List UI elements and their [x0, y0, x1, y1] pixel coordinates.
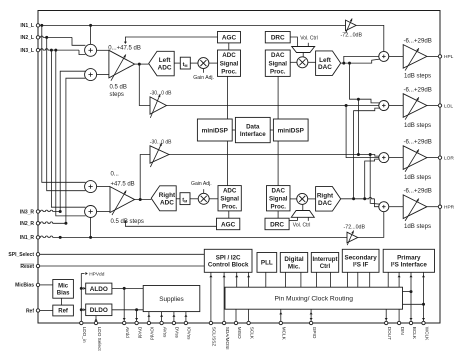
- amplifier LOR driver -6..+29dB: [403, 146, 427, 172]
- svg-text:LDO Select: LDO Select: [97, 327, 102, 352]
- arrowhead AGC feedback up: [124, 220, 127, 222]
- wire IN3_L into mixer: [79, 50, 85, 55]
- svg-text:ADC: ADC: [158, 65, 172, 72]
- svg-text:1dB steps: 1dB steps: [404, 73, 431, 80]
- volume control trapezoid bottom: [291, 204, 314, 221]
- arrowhead WCLK up: [422, 275, 425, 277]
- svg-text:0.5 dB: 0.5 dB: [110, 85, 127, 91]
- svg-text:DAC: DAC: [318, 200, 332, 207]
- terminal MicBias: [36, 283, 39, 286]
- arrowhead into DLDO: [83, 308, 85, 311]
- svg-text:DAC: DAC: [271, 52, 285, 59]
- wire Ref row: [40, 310, 53, 312]
- svg-text:Secondary: Secondary: [345, 254, 378, 261]
- wire right PGA tap up: [140, 155, 150, 200]
- junction left PGA output: [138, 63, 141, 66]
- wire mult to ADC proc right: [209, 198, 218, 200]
- wire LDO_in vertical: [80, 274, 82, 322]
- wire Secondary stub 3: [369, 272, 371, 287]
- wire SCLK stub: [248, 309, 250, 321]
- svg-text:LDO_in: LDO_in: [82, 327, 87, 343]
- wire miniDSPL to ADCproc bottom: [227, 141, 229, 186]
- svg-text:ALDO: ALDO: [90, 286, 108, 293]
- arrowhead AGC feedback down: [124, 42, 127, 44]
- wire mixer D to right PGA: [97, 211, 110, 213]
- block Data Interface: [235, 117, 270, 142]
- wire AVss stub: [161, 312, 163, 321]
- svg-text:1dB steps: 1dB steps: [404, 174, 431, 181]
- svg-text:DAC: DAC: [318, 64, 332, 71]
- svg-text:miniDSP: miniDSP: [202, 127, 229, 134]
- block Mic Bias: [53, 280, 74, 299]
- svg-text:-30...0 dB: -30...0 dB: [150, 140, 172, 146]
- svg-text:SCL/SSZ: SCL/SSZ: [212, 327, 217, 347]
- wire bus IN1_L vertical: [42, 25, 86, 182]
- arrowhead BCLK up: [410, 275, 413, 277]
- terminal SCL_SSZ: [209, 321, 212, 324]
- svg-text:Signal: Signal: [268, 60, 287, 67]
- svg-text:IN1_R: IN1_R: [20, 235, 35, 241]
- svg-text:Primary: Primary: [397, 254, 421, 261]
- wire DAC proc to mult bottom: [290, 198, 297, 200]
- wire HPVdd stub: [81, 273, 84, 275]
- wire bus IN3_L vertical 2: [56, 50, 86, 216]
- amplifier HPL driver -6..+29dB: [403, 45, 427, 71]
- svg-text:miniDSP: miniDSP: [278, 127, 305, 134]
- arrowhead DVdd down: [135, 318, 138, 320]
- terminal DIN: [397, 321, 400, 324]
- block PLL: [257, 253, 277, 273]
- svg-text:DVss: DVss: [175, 327, 180, 339]
- wire mixer A to left PGA: [97, 49, 109, 51]
- multiplier left DAC vol: [297, 57, 308, 68]
- wire MISO stub: [235, 309, 237, 321]
- block AGC bottom: [217, 218, 240, 230]
- block ADC Signal Proc top: [218, 50, 241, 76]
- svg-text:Interrupt: Interrupt: [312, 256, 337, 263]
- svg-text:1dB steps: 1dB steps: [404, 223, 431, 230]
- multiplier left gain adj: [198, 58, 209, 69]
- wire IN2_L into mixer: [72, 37, 85, 45]
- block DRC top: [265, 32, 290, 43]
- wire LDO to ALDO: [81, 287, 83, 289]
- svg-text:Supplies: Supplies: [159, 296, 184, 303]
- terminal SCLK: [247, 321, 250, 324]
- svg-text:Reset: Reset: [20, 264, 34, 270]
- svg-text:Proc.: Proc.: [270, 69, 286, 76]
- wire Right DAC output row: [341, 197, 375, 198]
- arrowhead BCLK down: [410, 318, 413, 320]
- wire LOR amp to pad: [427, 157, 438, 159]
- arrowhead into ALDO: [83, 287, 85, 290]
- svg-text:AVss: AVss: [162, 327, 167, 338]
- svg-text:Proc.: Proc.: [271, 203, 287, 210]
- summing mixer left PGA A: [85, 44, 97, 56]
- svg-text:-30...0 dB: -30...0 dB: [150, 91, 172, 97]
- svg-text:Ref: Ref: [58, 309, 69, 315]
- junction IN3_R bus: [59, 210, 62, 213]
- wire IN2_L row: [40, 36, 72, 37]
- junction IN3_L bus 2: [54, 49, 57, 52]
- svg-text:-6...+29dB: -6...+29dB: [404, 188, 432, 195]
- arrowhead SPI stub 3: [235, 275, 238, 277]
- wire Left DAC output row: [341, 59, 381, 63]
- svg-text:Signal: Signal: [220, 60, 239, 67]
- wire mixer B to left PGA: [97, 74, 109, 76]
- junction RDAC V3b: [352, 197, 355, 200]
- svg-text:IN3_L: IN3_L: [20, 48, 34, 54]
- wire Secondary stub 2: [357, 272, 359, 287]
- block ADC Signal Proc bottom: [218, 186, 241, 211]
- wire miniDSPL to DataIF: [232, 129, 235, 131]
- svg-text:I²S Interface: I²S Interface: [391, 262, 428, 269]
- wire DAC proc to mult top: [290, 61, 297, 63]
- block Supplies: [143, 286, 200, 312]
- svg-text:DRC: DRC: [270, 221, 284, 228]
- wire IN3_R row: [40, 210, 60, 211]
- amplifier left mixer -30..0dB: [150, 94, 167, 118]
- svg-text:SCLK: SCLK: [249, 327, 254, 340]
- terminal DOUT: [385, 321, 388, 324]
- svg-text:ADC: ADC: [222, 52, 236, 59]
- svg-text:ADC: ADC: [223, 187, 237, 194]
- wire Primary stub DOUT: [387, 272, 389, 287]
- wire IN1_R row to bottom bypass amp: [40, 236, 347, 237]
- svg-text:Mic: Mic: [58, 284, 69, 290]
- wire bus IN2_R vertical: [66, 78, 86, 223]
- wire bypass bottom to HPR mixer: [358, 212, 384, 238]
- wire filter to gain mult right: [190, 198, 198, 200]
- wire V6 drop to HPR: [370, 155, 380, 205]
- block Ref: [53, 305, 74, 316]
- terminal SDA_MOSI: [222, 321, 225, 324]
- arrowhead GPIO down: [310, 318, 313, 320]
- terminal LDO_in: [80, 321, 83, 324]
- wire DVss stub: [173, 312, 175, 321]
- terminal IN1_L: [36, 24, 39, 27]
- svg-text:BCLK: BCLK: [412, 327, 417, 340]
- svg-text:DRC: DRC: [271, 35, 285, 42]
- arrowhead GPIO up: [310, 312, 313, 314]
- arrowhead AVss up: [160, 314, 163, 316]
- svg-text:DIN: DIN: [400, 327, 405, 335]
- terminal IOVdd: [147, 321, 150, 324]
- svg-text:Left: Left: [319, 57, 332, 64]
- ADC block Left ADC: [149, 51, 175, 76]
- junction IN1_L bus: [40, 24, 43, 27]
- svg-text:I²S IF: I²S IF: [353, 262, 369, 269]
- terminal HPR: [438, 205, 441, 208]
- arrowhead DOUT down: [385, 318, 388, 320]
- junction LDAC V1: [342, 62, 345, 65]
- summing mixer right PGA A: [85, 181, 97, 193]
- wire left PGA tap down: [139, 64, 150, 105]
- wire mixer to LOR amp: [389, 157, 403, 159]
- wire Va cross vertical: [346, 106, 379, 158]
- svg-text:IOVss: IOVss: [187, 327, 192, 340]
- svg-text:IN1_L: IN1_L: [20, 23, 34, 29]
- wire SPI stub 2: [223, 272, 225, 321]
- svg-text:Vol. Ctrl: Vol. Ctrl: [300, 35, 318, 41]
- block DAC Signal Proc bottom: [267, 186, 291, 211]
- wire AGC to ADC proc: [228, 43, 230, 50]
- svg-text:-72...0dB: -72...0dB: [344, 225, 366, 231]
- svg-text:MCLK: MCLK: [282, 327, 287, 341]
- junction IN1_R bus: [59, 236, 62, 239]
- wire LDO Select vertical: [95, 316, 97, 321]
- wire bus IN3_L vertical: [51, 50, 85, 207]
- wire right -30amp row: [169, 155, 379, 157]
- wire HPR amp to pad: [427, 206, 438, 208]
- junction WCLK stub: [422, 303, 425, 306]
- wire V1 to HPL mixer: [344, 56, 379, 63]
- wire DRC to vol ctrl bottom: [289, 220, 297, 222]
- block Pin Muxing Clock Routing: [225, 287, 403, 309]
- svg-text:Ref: Ref: [26, 308, 34, 314]
- wire filter to gain mult left: [190, 62, 198, 64]
- wire V3 LDAC drop to LOR: [357, 99, 359, 154]
- svg-text:WCLK: WCLK: [424, 327, 429, 341]
- terminal SPI_Select: [36, 253, 39, 256]
- terminal LOR: [438, 156, 441, 159]
- svg-text:+47.5 dB: +47.5 dB: [111, 181, 135, 187]
- svg-text:SDA/MOSI: SDA/MOSI: [225, 327, 230, 350]
- junction BCLK stub: [410, 290, 413, 293]
- wire Secondary stub 1: [347, 272, 349, 287]
- wire LOL amp to pad: [427, 105, 438, 107]
- wire mixer C to right PGA: [97, 186, 110, 188]
- junction Va LOL row: [345, 104, 348, 107]
- junction IN3_L bus: [50, 49, 53, 52]
- wire HPL amp to pad: [427, 55, 438, 57]
- svg-text:Proc.: Proc.: [221, 69, 237, 76]
- amplifier LOL driver -6..+29dB: [403, 94, 427, 120]
- svg-text:Left: Left: [159, 57, 172, 64]
- svg-text:1dB steps: 1dB steps: [404, 122, 431, 129]
- wire IOVss stub: [185, 312, 187, 321]
- svg-text:Interface: Interface: [240, 131, 266, 138]
- output mixer LOR: [379, 153, 389, 163]
- wire pinmux to WCLK stub: [403, 303, 424, 305]
- junction IN1_L mixer feed: [89, 24, 92, 27]
- svg-text:Control Block: Control Block: [208, 262, 249, 269]
- wire DACproc to miniDSPR: [277, 76, 279, 119]
- wire left PGA output: [135, 63, 149, 65]
- output mixer LOL: [379, 101, 389, 111]
- amplifier bypass IN1_L -72..0dB: [346, 18, 357, 33]
- terminal DVss: [172, 321, 175, 324]
- wire MCLK stub: [280, 309, 282, 321]
- svg-text:-6...+29dB: -6...+29dB: [404, 37, 432, 44]
- terminal HPL: [438, 55, 441, 58]
- svg-text:GPIO: GPIO: [312, 327, 317, 339]
- svg-text:-6...+29dB: -6...+29dB: [404, 139, 432, 146]
- wire mixer to LOL amp: [389, 105, 403, 107]
- wire mult to Right DAC: [308, 198, 316, 200]
- amplifier HPR driver -6..+29dB: [403, 195, 427, 221]
- wire IN3_L row: [40, 49, 79, 50]
- svg-text:0...: 0...: [111, 171, 120, 177]
- wire IOVdd stub: [148, 312, 150, 321]
- svg-text:IN2_R: IN2_R: [20, 221, 35, 227]
- wire ADC proc to AGC bottom: [228, 211, 230, 218]
- terminal DVdd: [135, 321, 138, 324]
- block miniDSP left: [197, 119, 232, 141]
- block Secondary I2S IF: [342, 249, 379, 272]
- block Digital Mic: [280, 253, 307, 273]
- junction DVdd: [135, 308, 138, 311]
- arrowhead SPI stub 2: [223, 275, 226, 277]
- wire DigMic stub 1: [284, 272, 286, 287]
- wire SPI_Select row: [40, 253, 204, 255]
- block miniDSP right: [273, 119, 308, 141]
- arrowhead LDO Select up: [95, 318, 98, 320]
- summing mixer right PGA B: [85, 206, 97, 218]
- wire AGC feedback left: [125, 37, 217, 42]
- svg-text:Bias: Bias: [57, 290, 70, 296]
- wire left ADC to filter: [174, 62, 180, 64]
- wire DigMic stub 2: [300, 272, 302, 287]
- svg-text:SPI_Select: SPI_Select: [8, 252, 34, 258]
- svg-text:steps: steps: [110, 92, 124, 98]
- svg-text:HPL: HPL: [444, 54, 454, 60]
- junction V6 LOR row: [369, 153, 372, 156]
- terminal IN1_R: [36, 236, 39, 239]
- output mixer HPR: [379, 202, 389, 212]
- svg-text:PLL: PLL: [261, 260, 273, 267]
- svg-text:-6...+29dB: -6...+29dB: [404, 87, 432, 94]
- wire pinmux to BCLK stub: [403, 291, 412, 293]
- junction RDAC V4: [363, 197, 366, 200]
- wire MicBias to Ref link: [61, 298, 63, 305]
- terminal IN2_L: [36, 36, 39, 39]
- wire mixer to HPL amp: [389, 55, 403, 57]
- svg-text:MISO: MISO: [237, 327, 242, 339]
- wire PLL stub: [265, 272, 267, 287]
- junction LDO to DLDO: [80, 308, 83, 311]
- block DRC bottom: [265, 218, 289, 230]
- svg-text:Pin Muxing/ Clock Routing: Pin Muxing/ Clock Routing: [275, 296, 354, 303]
- svg-text:0...+47.5 dB: 0...+47.5 dB: [108, 45, 141, 51]
- svg-text:Right: Right: [159, 192, 176, 199]
- block SPI I2C Control: [204, 249, 252, 272]
- wire IN1_R mixer vertical: [90, 218, 92, 238]
- arrowhead DVss up: [172, 314, 175, 316]
- wire Interrupt stub 1: [315, 272, 317, 287]
- junction V3 LOR row: [357, 153, 360, 156]
- wire V4 RDAC rise: [365, 159, 380, 199]
- arrowhead SPI stub 4: [247, 275, 250, 277]
- svg-text:Proc.: Proc.: [222, 203, 238, 210]
- wire IN2_R row: [40, 222, 66, 223]
- wire V2 LDAC drop: [350, 63, 380, 103]
- block Interrupt Ctrl: [311, 253, 338, 273]
- wire bypass top to HPL mixer: [356, 25, 384, 51]
- wire bus IN3_R vertical: [60, 71, 85, 211]
- amplifier right PGA 0..+47.5dB: [110, 187, 135, 215]
- terminal IN3_R: [36, 210, 39, 213]
- wire miniDSPR to DACproc bottom: [277, 141, 279, 186]
- arrowhead AVdd down: [123, 318, 126, 320]
- terminal LDO_Select: [94, 321, 97, 324]
- svg-text:0.5 dB steps: 0.5 dB steps: [111, 219, 144, 225]
- wire Primary stub DIN: [398, 272, 400, 287]
- wire left -30amp row to LOL mixer: [167, 105, 379, 107]
- wire GPIO stub: [310, 309, 312, 321]
- wire mult to Left DAC: [308, 61, 316, 63]
- terminal Ref: [36, 309, 39, 312]
- svg-text:DAC: DAC: [272, 187, 286, 194]
- multiplier right DAC vol: [297, 193, 308, 204]
- arrowhead SPI stub 1: [209, 275, 212, 277]
- svg-text:DOUT: DOUT: [387, 327, 392, 340]
- wire ALDO out to AVdd and Supplies: [112, 287, 143, 289]
- wire SPI stub 1: [210, 272, 212, 321]
- arrowhead IOVdd up: [147, 314, 150, 316]
- wire DataIF to miniDSPR: [270, 129, 273, 131]
- terminal MISO: [234, 321, 237, 324]
- svg-text:Digital: Digital: [284, 256, 303, 263]
- wire right PGA output: [135, 199, 152, 201]
- terminal BCLK: [409, 321, 412, 324]
- block DAC Signal Proc top: [265, 50, 290, 76]
- wire IN1_L row to top-right bypass amp: [40, 24, 346, 26]
- junction LDO to ALDO: [80, 287, 83, 290]
- DAC block Right DAC: [316, 187, 341, 212]
- amplifier right mixer -30..0dB: [150, 143, 169, 167]
- terminal GPIO: [309, 321, 312, 324]
- wire AGC feedback bottom: [125, 222, 216, 226]
- amplifier left PGA 0..+47.5dB: [109, 50, 135, 80]
- wire AVdd vertical: [123, 288, 125, 321]
- terminal AVss: [160, 321, 163, 324]
- block Primary I2S Interface: [383, 249, 434, 272]
- terminal AVdd: [123, 321, 126, 324]
- svg-text:DVdd: DVdd: [137, 327, 142, 339]
- IC boundary box: [38, 11, 440, 324]
- junction AVdd: [123, 287, 126, 290]
- terminal IN2_R: [36, 222, 39, 225]
- terminal MCLK: [279, 321, 282, 324]
- svg-text:IOVdd: IOVdd: [150, 327, 155, 341]
- arrowhead IOVss up: [184, 314, 187, 316]
- svg-text:Mic.: Mic.: [288, 263, 300, 270]
- wire mixer to HPR amp: [389, 206, 403, 208]
- svg-text:Ctrl: Ctrl: [320, 263, 331, 270]
- svg-text:IN2_L: IN2_L: [20, 35, 34, 41]
- summing mixer left PGA B: [85, 69, 97, 81]
- svg-text:LOR: LOR: [444, 155, 454, 161]
- amplifier bypass IN1_R -72..0dB: [347, 231, 358, 246]
- terminal Reset: [36, 264, 39, 267]
- block AGC top: [218, 32, 241, 43]
- wire RDAC row into HPR mixer: [375, 199, 379, 207]
- junction LDAC V2: [348, 62, 351, 65]
- arrowhead DIN into Primary: [398, 275, 401, 277]
- wire DLDO out to DVdd and Supplies: [112, 309, 143, 311]
- svg-text:MicBias: MicBias: [15, 283, 34, 289]
- multiplier right gain adj: [198, 193, 209, 204]
- arrowhead WCLK down: [422, 318, 425, 320]
- wire right ADC to filter: [176, 198, 180, 200]
- wire DIN stub: [398, 309, 400, 321]
- svg-text:SPI / I2C: SPI / I2C: [216, 254, 241, 261]
- svg-text:Gain Adj.: Gain Adj.: [193, 75, 214, 81]
- svg-text:Gain Adj.: Gain Adj.: [191, 181, 212, 187]
- wire Reset row: [40, 265, 204, 267]
- terminal IOVss: [184, 321, 187, 324]
- svg-text:Vol. Ctrl: Vol. Ctrl: [293, 223, 311, 229]
